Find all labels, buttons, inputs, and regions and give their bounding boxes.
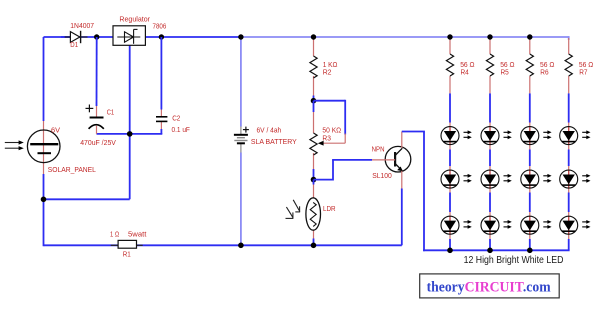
LED column 3 wire x=529.8 — [529, 38, 531, 250]
solar light arrow 2 — [5, 146, 24, 150]
wire: emitter lead down from Q1 — [401, 171, 403, 246]
node: junction dot top wire at C1 tap — [94, 34, 99, 39]
capacitor C1 leads — [96, 37, 98, 134]
capacitor C2 leads — [160, 37, 162, 134]
LED column 1 wire x=450 — [449, 38, 451, 250]
wire: mid-left horizontal from solar panel column to regulator ground column — [44, 198, 130, 200]
LED D10 — [521, 216, 552, 235]
transistor Q1 SL100 — [372, 146, 411, 172]
wire: R3 wiper loop from R2-R3 junction — [314, 100, 346, 135]
LED D7 — [481, 216, 512, 235]
LED D9 — [521, 170, 552, 189]
LDR body — [306, 198, 321, 230]
LED D8 — [521, 126, 552, 145]
node: junction dot bottom wire at LDR — [311, 243, 317, 249]
wire: collector lead up from Q1 — [401, 132, 403, 148]
node: junction dot R3 bottom / LDR top — [311, 177, 317, 183]
LED D13 — [560, 216, 591, 235]
theoryCIRCUIT.com logo box — [420, 274, 560, 298]
LED D4 — [441, 216, 472, 235]
LED column 4 wire x=568.7 — [568, 36, 570, 250]
svg-text:theoryCIRCUIT.com: theoryCIRCUIT.com — [427, 279, 551, 295]
wire: top net, lavender section from battery junction to top-right corner — [241, 36, 569, 38]
node: junction dot R2 bottom / R3 top — [311, 98, 317, 104]
LED D5 — [481, 126, 512, 145]
svg-text:1N4007: 1N4007 — [70, 21, 94, 30]
svg-text:SL100: SL100 — [372, 171, 392, 180]
LED column 2 wire x=490 — [489, 38, 491, 250]
node: junction return wire col1 — [447, 248, 453, 254]
potentiometer R3 wiper arrow — [318, 134, 345, 146]
svg-text:SOLAR_PANEL: SOLAR_PANEL — [48, 165, 96, 174]
battery BT1 plates — [234, 127, 249, 144]
svg-text:SLA BATTERY: SLA BATTERY — [251, 137, 297, 146]
node: junction dot ground net at x=129.7 — [127, 131, 133, 137]
svg-text:1 Ω: 1 Ω — [110, 229, 119, 238]
node: junction dot bottom wire at battery — [238, 243, 244, 249]
resistor R3 zigzag — [310, 133, 317, 155]
LED D6 — [481, 170, 512, 189]
battery BT1 leads — [240, 37, 242, 245]
wire: collector net vertical x=424 down to LED return — [423, 132, 425, 252]
op-amp-style regulator U1 box — [113, 26, 145, 46]
svg-text:7806: 7806 — [153, 21, 167, 30]
node: junction return wire col2 — [487, 248, 493, 254]
svg-text:0.1 uF: 0.1 uF — [172, 125, 191, 134]
node: junction top wire col3 — [527, 34, 532, 39]
diode D1 — [61, 31, 88, 43]
svg-text:C1: C1 — [107, 107, 115, 116]
svg-text:6V / 4ah: 6V / 4ah — [257, 126, 282, 135]
resistor R2 zigzag — [310, 56, 317, 78]
svg-text:5watt: 5watt — [128, 229, 147, 238]
svg-text:470uF /25V: 470uF /25V — [80, 138, 116, 147]
node: junction dot mid-left at (43.5,199.3) — [41, 197, 47, 203]
svg-text:LDR: LDR — [323, 204, 336, 213]
node: junction dot top wire at battery — [238, 34, 243, 39]
wire: left vertical from top wire down to solar panel — [43, 37, 45, 121]
svg-text:R4: R4 — [461, 68, 469, 77]
solar light arrow 1 — [5, 140, 24, 144]
wire: collector net horizontal to x=424 — [402, 131, 425, 133]
solar panel PV1 symbol — [27, 121, 60, 174]
svg-text:R6: R6 — [540, 68, 548, 77]
node: junction top wire col1 — [447, 34, 452, 39]
LED D3 — [441, 170, 472, 189]
node: junction dot top wire at R2 — [311, 34, 316, 39]
svg-text:R1: R1 — [123, 250, 131, 259]
node: junction top wire col2 — [487, 34, 492, 39]
wire: capacitor ground horizontal y=133.9 between C1 and C2 — [97, 133, 163, 135]
resistor R5 zigzag — [486, 54, 493, 76]
resistor R4 zigzag — [446, 54, 453, 76]
LDR leads — [313, 180, 315, 246]
wire: base network from R3-LDR junction to transistor base — [314, 160, 373, 181]
capacitor C1 plates — [86, 105, 104, 129]
svg-text:C2: C2 — [172, 113, 180, 122]
wire: solar panel bottom to mid-left junction and down to bottom ground wire — [43, 174, 45, 246]
resistor R7 zigzag — [565, 54, 572, 76]
LDR light arrow 2 — [286, 207, 294, 219]
svg-text:6V: 6V — [51, 126, 60, 135]
LED D11 — [560, 126, 591, 145]
LED D12 — [560, 170, 591, 189]
svg-text:D1: D1 — [70, 40, 78, 49]
svg-text:R7: R7 — [579, 68, 587, 77]
wire: regulator ground vertical x=129.7 — [129, 45, 131, 199]
node: junction return wire col3 — [527, 248, 533, 254]
wire: bottom ground wire y=245.3 — [44, 244, 402, 246]
svg-text:R2: R2 — [323, 68, 332, 77]
svg-text:R3: R3 — [322, 133, 331, 142]
resistor R1 on bottom wire — [111, 240, 143, 248]
wire: LED return wire y=250.3 — [423, 249, 569, 251]
svg-text:12 High Bright White LED: 12 High Bright White LED — [464, 254, 564, 266]
resistor R2 leads — [313, 37, 315, 101]
svg-text:R5: R5 — [501, 68, 509, 77]
capacitor C2 plates — [156, 117, 167, 122]
svg-text:Regulator: Regulator — [119, 15, 150, 24]
resistor R6 zigzag — [526, 54, 533, 76]
svg-text:NPN: NPN — [372, 144, 385, 153]
wire: top net, left blue section from corner above solar panel to battery junction — [44, 36, 241, 38]
resistor R3 leads — [313, 101, 315, 180]
LDR light arrow 1 — [293, 200, 300, 212]
LED D2 — [441, 126, 472, 145]
node: junction dot top wire at C2 tap — [159, 34, 164, 39]
